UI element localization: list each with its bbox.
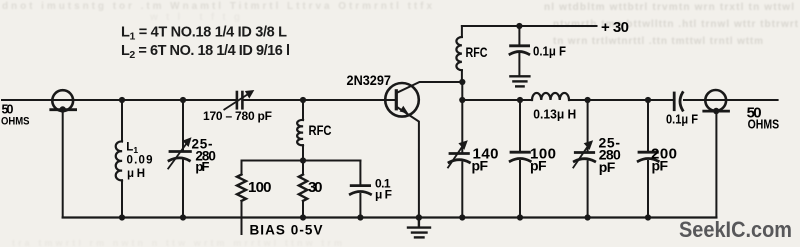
capacitor C7 top plate — [511, 151, 529, 154]
node: C3 bottom dot — [357, 214, 363, 220]
node: C8 bottom dot — [585, 214, 591, 220]
node: C7 bottom dot — [517, 214, 523, 220]
capacitor C1 curved bottom plate — [169, 158, 189, 161]
svg-text:ntvmrtb tmn bttwllttn .htl: ntvmrtb tmn bttwllttn .htl trnwl wttr tb… — [553, 19, 799, 30]
node: C6 bottom dot — [459, 214, 465, 220]
svg-text:pF: pF — [599, 159, 616, 175]
svg-text:pF: pF — [652, 158, 669, 174]
wire: main line after L2 — [569, 99, 673, 101]
resistor R2 zigzag — [299, 175, 307, 201]
capacitor C2 right plate — [241, 92, 244, 108]
capacitor C6 lower lead — [461, 162, 463, 217]
svg-text:RFC: RFC — [466, 44, 488, 60]
svg-text:pF: pF — [530, 158, 547, 174]
capacitor C9 200pF upper lead — [647, 100, 649, 152]
variable capacitor C8 25-280pF upper lead — [587, 100, 589, 152]
capacitor C9 top plate — [639, 151, 657, 154]
capacitor C7 curved bottom plate — [510, 159, 530, 162]
faint smudge bottom-left — [12, 238, 342, 247]
input connector J1 shell bar — [51, 108, 76, 111]
ground symbol (below C5) — [510, 76, 529, 86]
capacitor C5 curved bottom plate — [510, 52, 529, 55]
inductor L1 coil — [116, 141, 122, 180]
svg-text:170 – 780 pF: 170 – 780 pF — [203, 109, 272, 123]
node: collector junction dot — [459, 79, 465, 85]
transistor Q1 base bar — [395, 91, 398, 109]
resistor R1 zigzag — [237, 175, 246, 201]
svg-text:2N3297: 2N3297 — [347, 72, 392, 88]
wire: output shell down to ground bus — [715, 111, 717, 217]
svg-text:L2 = 6T NO. 18 1/4 ID 9/16 l: L2 = 6T NO. 18 1/4 ID 9/16 l — [121, 43, 290, 61]
RF choke RFC1 coil — [297, 120, 303, 145]
inductor L1 lower lead — [121, 180, 123, 217]
svg-text:OHMS: OHMS — [748, 118, 780, 132]
capacitor C8 curved bottom plate — [574, 159, 594, 162]
svg-text:0.13μ H: 0.13μ H — [533, 106, 576, 121]
+30 supply rail — [462, 25, 597, 27]
node: R2 bottom dot — [300, 214, 306, 220]
node: L1 top dot — [119, 97, 125, 103]
series variable capacitor C2 170-780pF left plate — [236, 92, 239, 108]
capacitor C9 curved bottom plate — [638, 159, 658, 162]
resistor R1 lower lead passing through bus to bias stub — [241, 201, 243, 234]
wire: input shell down to ground bus — [62, 110, 64, 218]
svg-text:0.1μ F: 0.1μ F — [666, 112, 698, 127]
transistor Q1 emitter arrow — [400, 106, 409, 114]
RF choke RFC2 coil — [456, 37, 462, 70]
transistor Q1 collector lead — [396, 82, 462, 93]
capacitor C1 top plate — [170, 150, 190, 153]
transistor Q1 emitter lead — [396, 107, 419, 218]
capacitor C3 top plate — [351, 184, 369, 187]
node: RFC1 top dot on main line — [300, 97, 306, 103]
node: C9 bottom dot — [645, 214, 651, 220]
RF choke RFC2 upper lead — [461, 26, 463, 37]
node: C1 top dot — [180, 97, 186, 103]
svg-text:0.09: 0.09 — [127, 154, 153, 166]
wire: main output line from collector column to series cap — [462, 99, 532, 101]
capacitor C3 0.1uF upper lead — [359, 161, 361, 186]
svg-text:μ H: μ H — [127, 168, 145, 180]
input connector J1 circle — [52, 90, 73, 111]
wire: collector column down through main line — [461, 82, 463, 153]
svg-text:tn wrn trtlwtnrttl .ttn tm: tn wrn trtlwtnrttl .ttn tmttwl trntl wtt… — [553, 36, 763, 47]
transistor Q1 2N3297 circle — [385, 83, 419, 117]
svg-text:+ 30: + 30 — [601, 19, 629, 36]
faint print-through watermark text top-right block — [544, 2, 799, 47]
capacitor C8 top plate — [575, 151, 593, 154]
svg-text:BIAS 0-5V: BIAS 0-5V — [250, 222, 323, 237]
node: +30 rail dot — [516, 23, 522, 29]
variable capacitor C1 25-280pF: upper lead — [182, 100, 184, 152]
node: output shell junction dot — [713, 108, 719, 114]
series capacitor C10 0.1uF left plate — [673, 93, 676, 110]
capacitor C3 lower lead — [359, 194, 361, 218]
inductor L1 branch: upper lead — [121, 100, 123, 142]
wire: main input line y=100 from left edge to series cap — [2, 99, 237, 101]
svg-text:OHMS: OHMS — [1, 116, 30, 128]
capacitor C6 adjust arrow — [448, 145, 464, 168]
output connector J2 circle — [705, 90, 726, 111]
resistor R2 30 ohm upper lead — [302, 161, 304, 175]
svg-text:30: 30 — [308, 179, 323, 196]
RF choke RFC2 lower lead to collector junction — [461, 70, 463, 82]
capacitor C1 lower lead — [182, 161, 184, 218]
capacitor C7 100pF upper lead — [519, 100, 521, 152]
bias rail wire (horizontal) — [242, 160, 361, 162]
capacitor C7 lower lead — [519, 161, 521, 218]
node: input shell junction dot — [60, 106, 66, 112]
output connector J2 shell bar — [704, 110, 729, 113]
svg-text:50: 50 — [2, 102, 14, 116]
node: C8 top dot — [585, 97, 591, 103]
capacitor C6 top plate — [450, 152, 468, 155]
RF choke RFC1 upper lead — [302, 100, 304, 120]
capacitor C5 bypass 0.1uF lead from +30 rail — [518, 26, 520, 46]
node: RFC1 to bias rail dot — [300, 157, 306, 163]
capacitor C3 curved bottom plate — [350, 192, 370, 195]
capacitor C10 curved right plate — [680, 93, 683, 111]
svg-text:SeekIC.com: SeekIC.com — [679, 217, 792, 242]
capacitor C1 adjust arrow — [168, 142, 188, 169]
wire: from C10 to right edge through output connector — [684, 99, 778, 101]
capacitor C8 adjust arrow — [573, 145, 589, 168]
capacitor C9 lower lead — [647, 161, 649, 218]
capacitor C2 adjust arrow — [224, 94, 249, 110]
svg-text:RFC: RFC — [309, 122, 332, 138]
node: C7 top dot — [517, 97, 523, 103]
svg-text:L1 = 4T NO.18 1/4 ID 3/8 L: L1 = 4T NO.18 1/4 ID 3/8 L — [121, 24, 287, 42]
capacitor C5 lower lead — [518, 54, 520, 76]
ground bus (bottom rail) — [63, 216, 717, 218]
capacitor C8 lower lead — [587, 161, 589, 217]
ground symbol (emitter/bus, x=419) — [408, 218, 430, 238]
node: main line junction dot at collector column — [459, 97, 465, 103]
faint print-through watermark text top-left — [2, 1, 432, 23]
svg-text:pF: pF — [195, 159, 209, 174]
svg-text:μ F: μ F — [375, 187, 392, 201]
svg-text:100: 100 — [248, 179, 272, 196]
variable capacitor C6 140pF upper lead — [461, 152, 463, 154]
capacitor C5 top plate — [511, 44, 529, 47]
node: C9 top dot — [645, 97, 651, 103]
RF choke RFC1 lower lead — [302, 145, 304, 160]
wire: main line from series cap to transistor base — [243, 99, 396, 101]
inductor L2 0.13uH coil (series, bumps up) — [532, 93, 569, 100]
capacitor C6 curved bottom plate — [449, 160, 469, 163]
svg-text:nl wtdbltm wttbtrl trvmtn: nl wtdbltm wttbtrl trvmtn wrn trxtl tn w… — [544, 2, 794, 13]
resistor R2 lower lead — [302, 201, 304, 218]
node: C1 bottom dot — [180, 214, 186, 220]
node: emitter bus dot — [416, 214, 422, 220]
svg-text:0.1μ F: 0.1μ F — [533, 43, 566, 58]
svg-text:pF: pF — [472, 158, 489, 174]
node: L1 bottom dot — [119, 214, 125, 220]
resistor R1 100 ohm upper lead — [241, 161, 243, 175]
